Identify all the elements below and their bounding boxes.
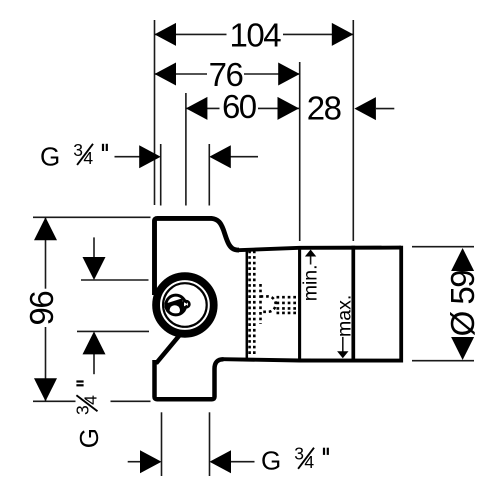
svg-text:G: G <box>74 428 104 448</box>
svg-text:G: G <box>261 445 281 475</box>
svg-text:28: 28 <box>307 90 341 127</box>
svg-text:min.: min. <box>300 264 322 301</box>
svg-text:3: 3 <box>73 140 83 160</box>
svg-text:3: 3 <box>72 405 92 415</box>
svg-text:104: 104 <box>230 17 282 54</box>
svg-text:G: G <box>40 141 60 171</box>
svg-text:3: 3 <box>294 444 304 464</box>
svg-text:Ø 59: Ø 59 <box>444 271 481 337</box>
svg-text:96: 96 <box>23 292 60 326</box>
svg-text:60: 60 <box>222 88 257 125</box>
